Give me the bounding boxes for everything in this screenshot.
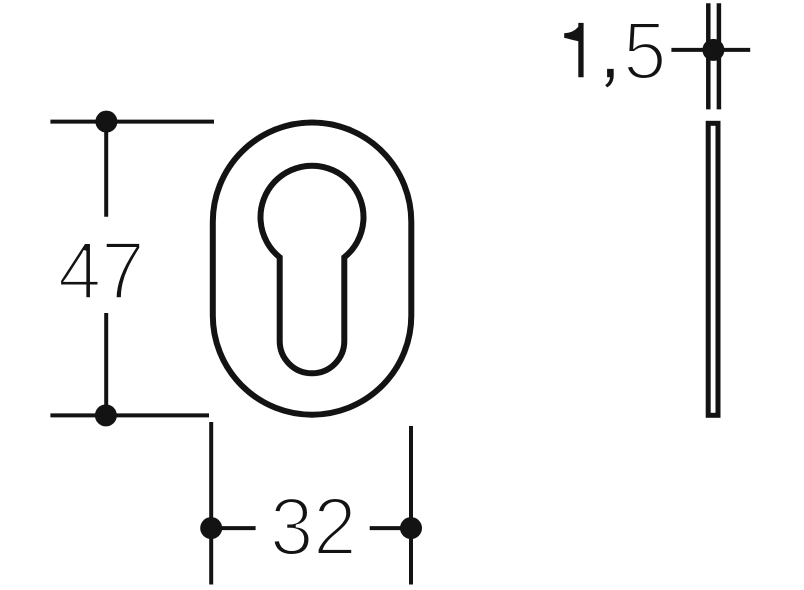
svg-text:5: 5: [623, 5, 666, 96]
svg-text:32: 32: [270, 481, 357, 572]
svg-text:47: 47: [58, 224, 145, 315]
